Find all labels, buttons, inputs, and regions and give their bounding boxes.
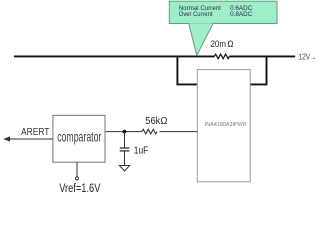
svg-text:Over Current: Over Current bbox=[179, 11, 213, 18]
resistor shunt 20mOhm bbox=[214, 54, 229, 59]
svg-text:20m Ω: 20m Ω bbox=[211, 39, 234, 50]
comparator U2 bbox=[53, 115, 105, 162]
svg-text:comparator: comparator bbox=[57, 129, 101, 144]
svg-text:56kΩ: 56kΩ bbox=[145, 116, 167, 127]
capacitor C 1uF bbox=[120, 132, 130, 166]
wire ALERT output with arrow bbox=[6, 138, 53, 140]
svg-text:1uF: 1uF bbox=[134, 146, 149, 157]
callout balloon (Normal/Over current annotation) bbox=[169, 1, 277, 55]
svg-text:ARERT: ARERT bbox=[21, 126, 50, 138]
op-amp U1 INA4180A3IPWR current sense amplifier bbox=[197, 70, 250, 182]
wire kelvin sense left bbox=[177, 56, 197, 84]
wire comparator to INA input bbox=[105, 131, 142, 133]
svg-text:0.8ADC: 0.8ADC bbox=[230, 11, 252, 18]
svg-text:Vref=1.6V: Vref=1.6V bbox=[59, 183, 100, 195]
node Vref terminal bbox=[76, 162, 79, 180]
wire rail right of shunt bbox=[229, 55, 295, 57]
resistor R 56k bbox=[142, 129, 157, 134]
wire kelvin sense right bbox=[250, 56, 266, 84]
svg-text:12V→: 12V→ bbox=[298, 53, 316, 62]
ground bbox=[119, 166, 129, 172]
wire 12V power rail bbox=[14, 55, 215, 57]
svg-text:INA4180A3IPWR: INA4180A3IPWR bbox=[205, 122, 247, 128]
node junction dot bbox=[123, 130, 127, 134]
